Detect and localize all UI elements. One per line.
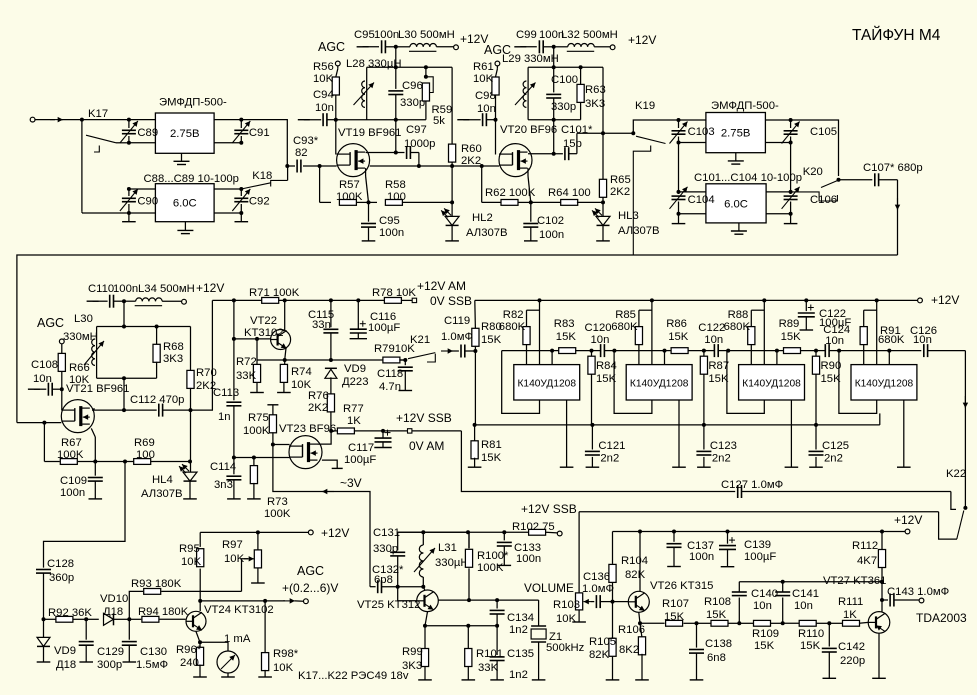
svg-text:K19: K19 xyxy=(635,100,655,112)
svg-text:C112 470p: C112 470p xyxy=(130,394,184,406)
resistor R111 xyxy=(829,620,868,626)
transistor VT20 xyxy=(499,144,532,177)
capacitor C143 xyxy=(882,594,919,607)
wire C101 up to K19 line xyxy=(577,131,633,153)
svg-text:C109: C109 xyxy=(60,475,87,487)
capacitor C139 xyxy=(719,532,736,567)
svg-text:C97: C97 xyxy=(406,124,427,136)
label R72 33K xyxy=(236,356,257,382)
wire R70 down to HL4 xyxy=(190,410,192,472)
label C127 1.0мФ xyxy=(721,479,783,491)
wire tank3bot down xyxy=(123,378,125,410)
long wire to detector xyxy=(17,255,898,423)
label R62 100K xyxy=(485,187,536,199)
svg-text:3K3: 3K3 xyxy=(402,660,422,672)
label +12V (VT20) xyxy=(628,33,656,47)
svg-text:R62 100K: R62 100K xyxy=(485,187,536,199)
svg-text:R84: R84 xyxy=(596,360,617,372)
output pin down U4 xyxy=(897,400,911,467)
svg-text:C100: C100 xyxy=(551,74,578,86)
emitter line VT22 xyxy=(257,358,405,362)
svg-text:100n: 100n xyxy=(113,283,138,295)
svg-text:К140УД1208: К140УД1208 xyxy=(742,378,801,389)
tank1 left wire xyxy=(366,67,368,119)
svg-text:1.0мФ: 1.0мФ xyxy=(582,583,614,595)
ground C92 xyxy=(235,213,249,222)
svg-text:1K: 1K xyxy=(347,415,361,427)
wire AGC stub T xyxy=(298,119,321,121)
svg-text:C128: C128 xyxy=(47,558,74,570)
label VT23 BF961 xyxy=(279,423,336,435)
resistor R56 xyxy=(332,66,339,120)
svg-text:100µF: 100µF xyxy=(368,322,400,334)
svg-text:15p: 15p xyxy=(563,138,582,150)
resistor R107 xyxy=(666,620,697,626)
label K17K22 РЭС49 xyxy=(298,670,409,682)
signal wire stage4 xyxy=(839,350,889,352)
wire box3 lower right xyxy=(765,141,792,145)
svg-text:C92: C92 xyxy=(249,196,270,208)
resistor R96 xyxy=(193,642,207,677)
ground C102 xyxy=(524,240,538,242)
output pin down U2 xyxy=(672,400,686,467)
svg-text:15K: 15K xyxy=(664,611,685,623)
ground filter box2 xyxy=(177,222,193,234)
svg-text:100µF: 100µF xyxy=(819,317,851,329)
led HL2 xyxy=(441,208,459,241)
label C91 xyxy=(249,127,270,139)
svg-text:R67: R67 xyxy=(61,437,82,449)
top fb line xyxy=(739,580,884,584)
svg-text:100µF: 100µF xyxy=(344,454,376,466)
svg-text:C134: C134 xyxy=(507,612,534,624)
svg-text:1n2: 1n2 xyxy=(509,624,528,636)
svg-text:C91: C91 xyxy=(249,127,270,139)
svg-text:R64 100: R64 100 xyxy=(548,187,591,199)
label Z1 500kHz xyxy=(546,631,585,654)
diode VD10 Д18 xyxy=(86,613,129,625)
svg-text:C108: C108 xyxy=(31,359,58,371)
node K22 pivot xyxy=(963,506,967,510)
wire pin3 U2 xyxy=(663,349,667,365)
label R96* 240 xyxy=(176,644,202,669)
svg-text:10n: 10n xyxy=(315,102,334,114)
svg-text:VT23 BF96: VT23 BF96 xyxy=(279,423,336,435)
svg-text:C142: C142 xyxy=(838,641,865,653)
svg-text:R89: R89 xyxy=(779,318,800,330)
capacitor C95 top xyxy=(382,40,396,53)
capacitor C142 xyxy=(822,623,837,678)
terminal +12V audio xyxy=(905,529,910,534)
label R91 680K addon xyxy=(0,0,1,1)
capacitor C95 bottom xyxy=(361,202,376,241)
wire L31rail from R102line xyxy=(398,531,468,533)
label C110 100n xyxy=(88,283,138,295)
svg-text:1 mA: 1 mA xyxy=(224,633,251,645)
label ЭМФДП-500- (right) xyxy=(711,100,779,112)
svg-text:R56: R56 xyxy=(313,61,334,73)
capacitor C120 xyxy=(592,344,617,357)
resistor R112 xyxy=(878,532,885,612)
svg-text:R87: R87 xyxy=(708,360,729,372)
diode VD9 Д18 xyxy=(37,619,50,662)
capacitor C109 xyxy=(88,462,103,499)
svg-text:+12V: +12V xyxy=(628,33,656,47)
wire VT22 emitter xyxy=(285,348,286,360)
svg-text:C117: C117 xyxy=(348,442,374,454)
svg-text:AGC: AGC xyxy=(297,564,324,578)
svg-text:5k: 5k xyxy=(433,115,445,127)
inductor L31 xyxy=(414,532,435,586)
svg-text:R94 180K: R94 180K xyxy=(138,606,189,618)
svg-text:C129: C129 xyxy=(97,646,124,658)
svg-text:100: 100 xyxy=(136,449,155,461)
svg-text:R110: R110 xyxy=(798,628,824,640)
capacitor C98 xyxy=(483,113,496,126)
resistor R63 xyxy=(577,67,584,119)
node C142 top xyxy=(827,621,831,625)
label C119 1.0мФ xyxy=(441,315,473,343)
label C143 1.0мФ xyxy=(887,586,949,598)
resistor R101 xyxy=(462,626,476,680)
meter 1mA xyxy=(200,642,239,677)
resistor R59 trimmer xyxy=(422,67,433,119)
svg-text:VD9: VD9 xyxy=(54,645,76,657)
svg-text:K22: K22 xyxy=(946,468,966,480)
wire C107 down xyxy=(895,180,900,255)
svg-text:R107: R107 xyxy=(662,598,689,610)
svg-text:0V SSB: 0V SSB xyxy=(430,294,472,308)
wire tank2bot to drain2 xyxy=(553,120,555,154)
svg-text:6.0С: 6.0С xyxy=(173,198,197,210)
capacitor C123 2n2 xyxy=(696,425,711,467)
ground R74 xyxy=(277,392,291,394)
capacitor C133 xyxy=(497,532,512,565)
opamp box U3 К140УД1208 xyxy=(739,365,805,400)
terminal R102 xyxy=(557,531,562,536)
svg-text:15K: 15K xyxy=(754,640,775,652)
label C92 xyxy=(249,196,270,208)
label VD10 Д18 xyxy=(100,593,128,618)
svg-text:L34 500мН: L34 500мН xyxy=(138,283,195,295)
label R97 10K xyxy=(222,539,245,565)
svg-text:100K: 100K xyxy=(264,508,291,520)
svg-text:33K: 33K xyxy=(478,662,499,674)
node R76 bottom xyxy=(329,429,333,433)
svg-text:C99: C99 xyxy=(516,29,537,41)
label R89 15K xyxy=(779,318,802,343)
relay K21 xyxy=(408,353,435,362)
label R57 100K xyxy=(336,179,363,203)
wire R93 to R97 wiper xyxy=(242,556,255,591)
label C133 100n xyxy=(514,542,541,565)
label R66 10K xyxy=(69,362,90,386)
label R92 36K xyxy=(48,607,92,619)
wire C97 down to out line xyxy=(417,153,421,169)
label VT20 BF961 xyxy=(500,124,557,136)
node L30 left xyxy=(394,45,398,49)
label C135 1n2 xyxy=(507,648,534,681)
label +12V bottomleft xyxy=(321,526,349,540)
label R82 680K xyxy=(499,309,526,333)
svg-text:R92 36K: R92 36K xyxy=(48,607,92,619)
label C138 6n8 xyxy=(705,638,732,664)
svg-text:+12V SSB: +12V SSB xyxy=(396,411,452,425)
svg-text:10n: 10n xyxy=(33,373,52,385)
resistor R72 xyxy=(253,339,260,393)
wire R103 riser xyxy=(578,512,580,593)
wire base node xyxy=(398,585,426,589)
svg-text:VT19 BF961: VT19 BF961 xyxy=(338,127,401,139)
svg-text:680K: 680K xyxy=(878,334,905,346)
wire tank1bot to drain xyxy=(395,120,397,153)
wire VT24 emitter xyxy=(196,632,200,643)
label C128 360p xyxy=(47,558,74,584)
capacitor C124 xyxy=(816,344,841,357)
svg-text:L30: L30 xyxy=(74,313,93,325)
node VT21 source bias xyxy=(93,460,97,464)
node R87 top xyxy=(702,349,706,353)
svg-text:C104: C104 xyxy=(688,194,715,206)
label R79 10K xyxy=(374,343,415,355)
capacitor C118 xyxy=(398,360,413,391)
opamp rail xyxy=(475,299,918,301)
wire rail pin2 U1 xyxy=(538,298,542,364)
svg-text:AGC: AGC xyxy=(318,40,345,54)
label L30 500мН xyxy=(398,29,455,41)
label R80 15K xyxy=(481,321,502,346)
label R81 15K xyxy=(481,439,502,464)
resistor R73 xyxy=(247,458,261,499)
resistor R79 xyxy=(383,357,405,363)
svg-text:15K: 15K xyxy=(481,334,502,346)
resistor R74 xyxy=(280,360,287,393)
svg-text:L28 330µH: L28 330µH xyxy=(346,58,402,70)
svg-text:10K: 10K xyxy=(556,613,577,625)
line B y625.8 xyxy=(423,624,499,628)
wire VT23 source xyxy=(322,460,343,468)
label C114 3n3 xyxy=(210,461,236,491)
wire R66 to VT21 xyxy=(61,389,63,410)
wire VT25 emitter xyxy=(425,612,428,626)
ground filter box4 xyxy=(731,223,747,234)
resistor R86 15K xyxy=(665,348,704,354)
signal wire stage1 xyxy=(502,350,552,352)
label C109 100n xyxy=(60,475,87,499)
label TDA2003 xyxy=(916,611,967,625)
svg-text:HL3: HL3 xyxy=(618,210,639,222)
terminal +12V (VT21) xyxy=(182,299,187,304)
resistor R106 xyxy=(635,623,649,680)
svg-text:VT22: VT22 xyxy=(250,315,277,327)
node C103 top xyxy=(677,118,681,122)
resistor R85 680K xyxy=(635,310,652,364)
label C118 4.7n xyxy=(377,368,403,393)
svg-text:1.0мФ: 1.0мФ xyxy=(441,331,473,343)
svg-text:R96*: R96* xyxy=(176,644,202,656)
label R68 3K3 xyxy=(163,341,184,365)
svg-text:680K: 680K xyxy=(499,321,526,333)
label R67 100K xyxy=(57,437,84,461)
svg-text:1000p: 1000p xyxy=(404,138,435,150)
ground C104 xyxy=(672,214,686,224)
wire box3 out top xyxy=(765,118,792,122)
svg-text:R75: R75 xyxy=(248,412,269,424)
capacitor C134 xyxy=(490,600,505,626)
wire VT19 out line xyxy=(370,164,484,168)
wire pin3 U4 xyxy=(887,349,891,365)
svg-text:C107* 680p: C107* 680p xyxy=(863,162,923,174)
relay K19 xyxy=(633,136,665,255)
svg-text:680K: 680K xyxy=(724,321,751,333)
node R70 bottom xyxy=(189,408,193,412)
label C125 2n2 xyxy=(822,440,849,465)
ground HL2 xyxy=(445,240,459,242)
filter box 2.75В (left) xyxy=(155,113,214,153)
svg-text:R109: R109 xyxy=(752,628,779,640)
label R85 680K xyxy=(611,309,638,333)
wire AGC stub T (VT20) xyxy=(457,119,480,121)
wire VT26 base xyxy=(613,601,629,603)
svg-text:K17...K22 РЭС49 18v: K17...K22 РЭС49 18v xyxy=(298,670,409,682)
svg-text:C138: C138 xyxy=(705,638,732,650)
tank3 bottom wire xyxy=(97,376,157,380)
wire VT26 emitter xyxy=(639,612,640,623)
resistor R90 15K xyxy=(812,351,819,425)
wire VT21 drain line xyxy=(92,408,157,412)
node R56 bottom xyxy=(334,118,338,122)
svg-text:100n: 100n xyxy=(374,29,399,41)
node VT19 source xyxy=(367,200,371,204)
title ТАЙФУН М4 xyxy=(852,26,941,44)
label C131 330p xyxy=(373,527,400,555)
capacitor C97 xyxy=(366,146,419,159)
node C129 top xyxy=(84,617,88,621)
capacitor C130 xyxy=(122,619,137,662)
wire R80 to bus xyxy=(474,351,476,425)
resistor R65 xyxy=(599,133,606,202)
label R77 1K xyxy=(343,403,364,427)
svg-text:R97: R97 xyxy=(222,539,243,551)
svg-text:220p: 220p xyxy=(840,655,865,667)
resistor R108 xyxy=(697,620,740,626)
resistor R82 680K xyxy=(523,310,540,364)
node K19 pivot xyxy=(631,131,635,135)
wire VT26 collector xyxy=(639,532,641,592)
node HL2 top xyxy=(450,200,454,204)
wire C131 top rail xyxy=(398,530,470,534)
wire box4 lower xyxy=(677,212,793,216)
svg-text:R66: R66 xyxy=(69,362,90,374)
resistor R61 xyxy=(492,66,499,120)
label K20 xyxy=(803,166,823,178)
label HL2 АЛ307В xyxy=(466,212,508,239)
capacitor C126 xyxy=(924,344,966,357)
label +12V (VT21) xyxy=(196,281,224,295)
svg-text:330мН: 330мН xyxy=(63,331,98,343)
svg-text:2K2: 2K2 xyxy=(308,402,328,414)
node VT19 gate xyxy=(318,164,322,168)
svg-text:33K: 33K xyxy=(236,370,257,382)
relay K22 arm xyxy=(957,511,964,540)
label R74 10K xyxy=(291,366,312,391)
resistor R80 xyxy=(472,300,479,351)
label HL4 АЛ307В xyxy=(141,474,183,500)
label C121 2n2 xyxy=(598,440,625,465)
svg-text:+12V AM: +12V AM xyxy=(417,279,466,293)
signal wire stage3 xyxy=(727,350,777,352)
wire pin3 U3 xyxy=(775,349,779,365)
label C88...C89 10-100p xyxy=(144,173,239,185)
svg-text:C101...C104 10-100p: C101...C104 10-100p xyxy=(694,172,802,184)
svg-text:ТАЙФУН М4: ТАЙФУН М4 xyxy=(852,26,941,44)
label R104 82K xyxy=(621,555,648,581)
svg-text:C141: C141 xyxy=(792,588,819,600)
resistor R92 xyxy=(44,616,87,622)
capacitor C138 xyxy=(689,623,704,680)
label R78 10K xyxy=(372,287,416,299)
wire L30 node to tank xyxy=(395,47,397,68)
svg-text:2n2: 2n2 xyxy=(824,453,843,465)
label R108 15K xyxy=(704,596,731,621)
svg-text:C114: C114 xyxy=(210,461,236,473)
resistor R89 15K xyxy=(777,348,816,354)
ground R72 xyxy=(250,392,264,394)
label L29 330мН xyxy=(502,53,559,65)
svg-text:+(0.2...6)V: +(0.2...6)V xyxy=(282,581,338,595)
label C100 330p xyxy=(551,74,578,113)
resistor R99 xyxy=(418,626,432,680)
svg-text:C96: C96 xyxy=(402,80,423,92)
wire C126 down xyxy=(963,351,968,508)
label C117 100µF xyxy=(344,442,376,466)
svg-text:500kHz: 500kHz xyxy=(546,642,585,654)
label C122 100µF xyxy=(819,308,851,329)
transistor VT25 xyxy=(417,590,439,612)
svg-text:R76: R76 xyxy=(308,390,329,402)
filter box 6.0C (left) xyxy=(155,184,214,222)
resistor R104 xyxy=(609,532,616,602)
label K22 xyxy=(946,468,966,480)
node VT26 emitter xyxy=(638,621,642,625)
capacitor C140 xyxy=(732,582,747,624)
capacitor C108 xyxy=(48,383,61,396)
capacitor C92 xyxy=(232,189,250,213)
resistor R71 xyxy=(262,298,385,304)
svg-text:100n: 100n xyxy=(539,229,564,241)
transistor VT22 xyxy=(271,330,291,350)
label R88 680K xyxy=(724,309,751,333)
opamp box U4 К140УД1208 xyxy=(851,365,917,400)
label +12V opamps xyxy=(931,293,959,307)
label VT27 KT361 xyxy=(823,575,886,587)
feedback bracket U2 xyxy=(614,351,652,414)
node L34 left xyxy=(122,299,126,303)
svg-text:C95: C95 xyxy=(379,215,400,227)
tank1 top wire xyxy=(367,65,452,69)
potentiometer R97 xyxy=(251,532,265,583)
node C141 bottom xyxy=(781,621,785,625)
svg-text:15K: 15K xyxy=(668,331,689,343)
label R60 2K2 xyxy=(461,143,482,167)
node R90 top xyxy=(814,349,818,353)
svg-text:R74: R74 xyxy=(291,366,312,378)
svg-text:C130: C130 xyxy=(140,646,167,658)
svg-text:R83: R83 xyxy=(554,318,575,330)
svg-text:360p: 360p xyxy=(49,572,74,584)
wire C127 hook xyxy=(951,492,956,510)
wire C108 T stub xyxy=(28,388,46,390)
